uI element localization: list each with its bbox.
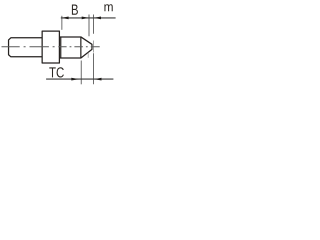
shank start face [60, 37, 62, 58]
tip notch faint line [87, 53, 89, 58]
top dimension line [61, 17, 116, 19]
shank with chamfered dog point [59, 37, 92, 58]
shank end face [80, 37, 82, 58]
label TC [49, 67, 64, 77]
extension line bottom left (x=81) [80, 61, 82, 85]
body (cylinder) [9, 38, 43, 57]
label m [104, 4, 112, 11]
label B [72, 5, 78, 15]
centerline [2, 46, 101, 48]
extension line B left (x=61.8) [61, 16, 63, 30]
arrow m [94, 17, 101, 20]
extension line chamfer start (x=89) [88, 15, 90, 37]
bottom dimension line [46, 78, 113, 80]
arrow TC left [71, 78, 79, 81]
arrow B right [82, 17, 89, 20]
extension line tip end (x=93.4) [93, 15, 95, 34]
collar [42, 31, 59, 63]
arrow TC right [94, 78, 101, 81]
arrow B left [61, 17, 68, 20]
